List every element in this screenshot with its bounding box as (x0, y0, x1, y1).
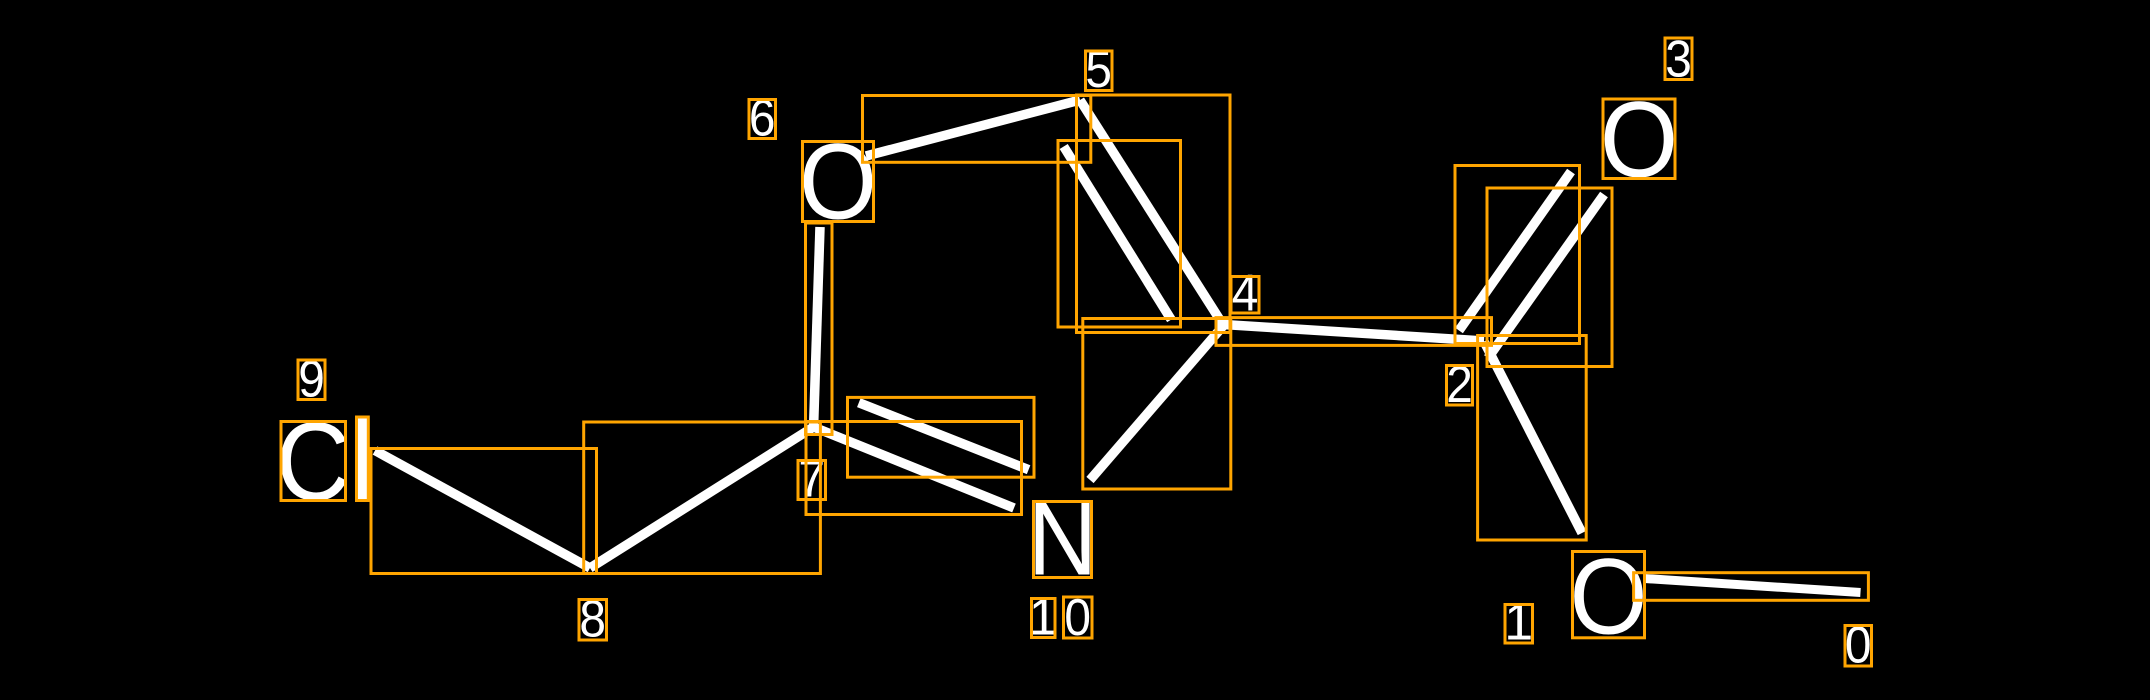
index 5 of C5 (1085, 40, 1112, 98)
bond C5=C4 main (1080, 100, 1224, 326)
svg-text:C: C (276, 400, 351, 524)
bbox index 9 (298, 360, 325, 400)
bbox index 4 (1231, 277, 1259, 314)
bbox index 7 (798, 461, 826, 500)
bbox atom O3 (1603, 99, 1675, 179)
index 9 of Cl9 (298, 350, 325, 408)
bond C4-N10 (1090, 326, 1224, 481)
bbox index 2 (1447, 366, 1473, 406)
bond O6-C5 (866, 100, 1080, 156)
index 6 of O6 (749, 89, 776, 147)
bond C2=O3 main (1488, 195, 1604, 359)
atom O6 label (799, 122, 877, 242)
bond C4-C2 (1224, 325, 1485, 342)
bbox atom O6 (803, 142, 874, 222)
bond C7=N10 main (814, 427, 1015, 508)
bbox bond C8-C7 (584, 422, 821, 574)
bbox bond O6-C5 (863, 96, 1091, 163)
bbox bond C4-C2 (1216, 318, 1492, 346)
bbox bond C5=C4 main (1077, 95, 1231, 333)
bbox atom O1 (1573, 552, 1645, 638)
bond C2-O1 (1484, 342, 1582, 534)
bbox index 5 (1086, 51, 1113, 91)
bbox bond C7-O6 (806, 223, 833, 435)
bbox bond C2=O3 outer (1455, 166, 1580, 344)
bbox bond C7=N10 outer (848, 397, 1035, 477)
index 2 of C2 (1446, 355, 1473, 413)
bbox index 3 (1665, 38, 1692, 80)
bbox index 1 (1505, 605, 1533, 644)
bond C8-C7 (590, 427, 814, 568)
index 10 digit 1 (1029, 589, 1058, 647)
bbox atom N10 (1034, 502, 1092, 578)
atom O1 label (1569, 537, 1647, 657)
index 7 of C7 (798, 450, 825, 508)
bbox bond C2=O3 main (1487, 188, 1612, 367)
atom N10 label (1028, 481, 1098, 597)
bond C2=O3 outer (1459, 172, 1571, 331)
bbox atom Cl9 glyph l (357, 417, 369, 501)
bbox index 10 digit1 (1032, 599, 1056, 638)
bbox bond Cl9-C8 (371, 449, 597, 574)
index 10 digit 0 (1064, 588, 1091, 646)
bbox bond C4-N10 (1083, 319, 1231, 490)
index 3 of O3 (1665, 30, 1692, 88)
bbox index 10 digit0 (1064, 597, 1093, 638)
bbox index 6 (749, 100, 776, 139)
bbox index 0 (1845, 626, 1872, 667)
bbox bond C7=N10 main (806, 422, 1022, 515)
atom Cl9 label l (348, 398, 376, 525)
bbox bond O1-C0 (1634, 573, 1869, 601)
atom O3 label (1600, 80, 1678, 200)
bbox index 8 (579, 600, 607, 641)
index 8 of C8 (579, 590, 606, 648)
bond Cl9-C8 (375, 451, 590, 569)
bbox bond C2-O1 (1478, 336, 1587, 541)
svg-text:N: N (1028, 481, 1098, 597)
bond C5=C4 inner (1064, 147, 1172, 320)
bond O1-C0 (1645, 579, 1861, 593)
index 1 of O1 (1504, 594, 1533, 652)
bbox atom Cl9 glyph C (281, 422, 346, 501)
index 4 of C4 (1232, 264, 1259, 322)
bond C7=N10 outer (859, 403, 1029, 470)
index 0 of C0 (1845, 616, 1872, 674)
atom Cl9 label C (276, 400, 351, 524)
bbox bond C5=C4 inner (1058, 141, 1181, 328)
bond C7-O6 (814, 227, 821, 429)
